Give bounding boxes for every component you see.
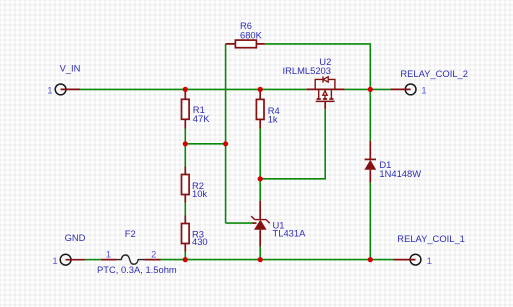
diode D1 — [364, 141, 376, 183]
svg-text:47K: 47K — [193, 113, 210, 124]
net label V_IN — [60, 62, 81, 73]
label D1 1N4148W — [379, 159, 421, 179]
svg-text:1: 1 — [52, 255, 57, 266]
junction gate node — [258, 176, 263, 181]
resistor R1 — [182, 89, 190, 128]
wire R4 bottom to gate node — [259, 129, 261, 201]
value label PTC, 0.3A, 1.5ohm — [97, 264, 177, 275]
wire U1 ref horizontal — [226, 222, 255, 224]
label F2 — [125, 228, 136, 239]
svg-text:F2: F2 — [125, 228, 136, 239]
label R6 680K — [240, 20, 263, 40]
wire R1 to R2 — [184, 129, 186, 167]
wire F2 to RELAY_COIL_1 bottom rail — [161, 259, 394, 261]
svg-text:1N4148W: 1N4148W — [379, 168, 421, 179]
pin number 1 of V_IN port — [47, 85, 52, 96]
pin number 1 of F2 — [106, 248, 111, 259]
shunt regulator U1 — [251, 201, 270, 247]
wire R1 bottom to left vertical — [185, 143, 225, 145]
wire D1 anode down to bottom rail — [369, 183, 371, 260]
wire R6 right to D1 top corner — [265, 44, 370, 90]
svg-text:RELAY_COIL_1: RELAY_COIL_1 — [397, 233, 465, 244]
label R2 10k — [192, 180, 207, 199]
svg-text:1: 1 — [421, 84, 426, 95]
label U2 IRLML5203 — [283, 56, 332, 76]
svg-text:680K: 680K — [240, 29, 263, 40]
label U1 TL431A — [273, 220, 307, 239]
wire GND to F2 — [85, 259, 101, 261]
svg-text:1: 1 — [47, 85, 52, 96]
net label GND — [65, 232, 86, 243]
resistor R3 — [182, 216, 190, 252]
port P1 V_IN — [55, 84, 80, 95]
svg-text:1: 1 — [427, 255, 432, 266]
label R4 1k — [268, 105, 280, 124]
pin number 1 of RELAY_COIL_2 port — [421, 84, 426, 95]
wire U2 gate down and left to node — [260, 109, 325, 179]
port RELAY_COIL_1 — [394, 254, 421, 265]
transistor U2 P-MOSFET — [306, 76, 344, 109]
pin number 1 of GND port — [52, 255, 57, 266]
svg-text:1k: 1k — [268, 113, 278, 124]
resistor R6 — [226, 40, 265, 48]
wire V_IN rail to U2 source — [80, 88, 306, 90]
wire U1 anode to bottom rail — [259, 247, 261, 260]
junction on rail at R4 — [258, 87, 263, 92]
junction on rail at D1 branch — [368, 87, 373, 92]
wire R6 left vertical down to U1 ref — [225, 44, 227, 223]
svg-text:430: 430 — [192, 236, 208, 247]
svg-text:PTC, 0.3A, 1.5ohm: PTC, 0.3A, 1.5ohm — [97, 264, 177, 275]
resistor R2 — [182, 167, 190, 203]
svg-text:TL431A: TL431A — [273, 228, 307, 239]
port RELAY_COIL_2 — [390, 84, 416, 95]
wire rail junction down to D1 — [369, 89, 371, 141]
junction R1 bottom — [183, 141, 188, 146]
junction bottom rail at U1 — [258, 257, 263, 262]
svg-text:RELAY_COIL_2: RELAY_COIL_2 — [400, 68, 468, 79]
wire R3 to bottom rail — [184, 252, 186, 260]
wire U2 drain to RELAY_COIL_2 — [345, 88, 391, 90]
junction bottom rail at R3 — [183, 257, 188, 262]
junction on rail at R1 — [183, 87, 188, 92]
pin number 2 of F2 — [151, 248, 156, 259]
resistor R4 — [256, 89, 264, 128]
svg-text:2: 2 — [151, 248, 156, 259]
svg-text:IRLML5203: IRLML5203 — [283, 65, 331, 76]
svg-text:1: 1 — [106, 248, 111, 259]
svg-text:10k: 10k — [192, 188, 207, 199]
wire R2 to R3 — [184, 203, 186, 216]
svg-text:GND: GND — [65, 232, 86, 243]
net label RELAY_COIL_1 — [397, 233, 465, 244]
pin number 1 of RELAY_COIL_1 port — [427, 255, 432, 266]
label R1 47K — [193, 104, 210, 124]
svg-text:V_IN: V_IN — [60, 62, 81, 73]
net label RELAY_COIL_2 — [400, 68, 468, 79]
junction left vertical mid — [223, 141, 228, 146]
label R3 430 — [192, 229, 208, 248]
junction bottom rail at D1 — [368, 257, 373, 262]
port GND — [60, 254, 85, 265]
fuse F2 polyfuse — [101, 255, 161, 264]
